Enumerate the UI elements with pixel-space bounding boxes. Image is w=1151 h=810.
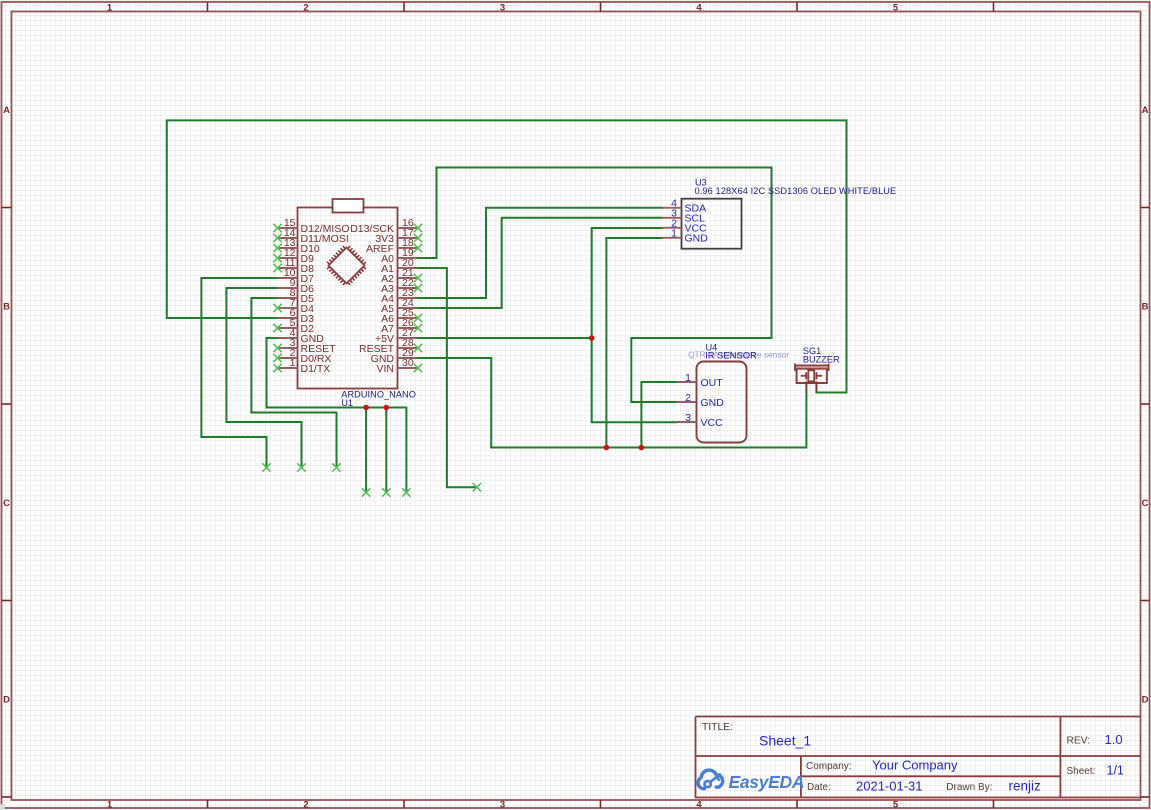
wire net D7: U1 pin 10 (D7) dangling stub — [201, 278, 277, 468]
wire GND drop 1 — [365, 408, 367, 493]
svg-text:4: 4 — [696, 800, 702, 810]
junction rail U4.OUT — [639, 445, 645, 451]
svg-text:OUT: OUT — [701, 377, 724, 389]
no-connect X end of D6 wire — [297, 463, 305, 471]
pin 22 A3 — [398, 287, 418, 289]
pin 21 A2 — [398, 277, 418, 279]
pin 26 A7 — [398, 327, 418, 329]
no-connect X GND drop 1 — [362, 488, 370, 496]
wire net GND: U1 pin 4 (GND) horizontal bus with three drops — [267, 338, 407, 493]
component U4 IR SENSOR — [677, 342, 790, 442]
pin 8 D5 — [278, 297, 298, 299]
svg-text:GND: GND — [685, 233, 709, 245]
svg-text:1: 1 — [685, 372, 691, 384]
pin 28 RESET — [398, 347, 418, 349]
buzzer element — [801, 375, 807, 377]
svg-text:C: C — [3, 498, 10, 509]
svg-text:IR SENSOR: IR SENSOR — [705, 350, 757, 361]
svg-text:Company:: Company: — [806, 761, 852, 772]
svg-text:A: A — [1142, 105, 1149, 116]
pin 2 GND — [677, 401, 697, 403]
pin 1 OUT — [677, 381, 697, 383]
svg-text:Sheet:: Sheet: — [1067, 766, 1096, 777]
svg-text:TITLE:: TITLE: — [702, 722, 733, 733]
buzzer body — [797, 369, 827, 383]
svg-text:D: D — [3, 694, 10, 705]
pin 12 D9 — [278, 257, 298, 259]
svg-text:Sheet_1: Sheet_1 — [759, 733, 811, 749]
buzzer top bar — [795, 365, 829, 369]
wire net D6: U1 pin 9 (D6) dangling stub — [226, 288, 301, 468]
svg-text:A: A — [3, 105, 10, 116]
svg-text:5: 5 — [893, 2, 899, 13]
pin 20 A1 — [398, 267, 418, 269]
pin 30 VIN — [398, 367, 418, 369]
pin 2 D0/RX — [278, 357, 298, 359]
svg-text:2021-01-31: 2021-01-31 — [856, 778, 923, 793]
no-connect X GND drop 3 — [402, 488, 410, 496]
no-connect X end of D7 wire — [262, 463, 270, 471]
wire net D3: U1 pin 6 (D3) to SG1 pin 2, with top loop — [167, 120, 847, 392]
svg-text:D: D — [1142, 694, 1149, 705]
pin 11 D8 — [278, 267, 298, 269]
svg-text:2: 2 — [685, 392, 691, 404]
pin 6 D3 — [278, 317, 298, 319]
pin 4 GND — [278, 337, 298, 339]
pin 23 A4 — [398, 297, 418, 299]
pin 1 D1/TX — [278, 367, 298, 369]
pin 17 3V3 — [398, 237, 418, 239]
svg-text:renjiz: renjiz — [1009, 778, 1042, 793]
svg-text:1: 1 — [671, 227, 677, 239]
pin 4 SDA — [662, 207, 682, 209]
svg-text:3: 3 — [500, 800, 505, 810]
pin 19 A0 — [398, 257, 418, 259]
component SG1 BUZZER — [795, 346, 840, 393]
junction at +5V/VCC — [589, 335, 595, 341]
pin 3 SCL — [662, 217, 682, 219]
svg-text:4: 4 — [696, 2, 702, 13]
svg-text:C: C — [1142, 498, 1149, 509]
pin 13 D10 — [278, 247, 298, 249]
svg-text:1.0: 1.0 — [1105, 732, 1123, 747]
svg-text:2: 2 — [303, 2, 308, 13]
wire net A4/SDA: U1 pin 23 (A4) to U3 pin 4 (SDA) — [418, 208, 662, 298]
svg-text:1: 1 — [107, 2, 113, 13]
wire U3 GND drop: U3 pin 1 (GND) to rail — [606, 238, 661, 448]
svg-text:Date:: Date: — [807, 782, 831, 793]
pin 29 GND — [398, 357, 418, 359]
title block — [696, 717, 1141, 799]
svg-text:1: 1 — [107, 800, 113, 810]
pin 16 D13/SCK — [398, 227, 418, 229]
wire net A1: U1 pin 20 (A1) dangling stub — [418, 268, 477, 487]
svg-text:5: 5 — [893, 800, 899, 810]
wire net VCC: U3 pin 2 (VCC) to U4 pin 3 (VCC) through junction — [592, 228, 677, 422]
pin 15 D12/MISO — [278, 227, 298, 229]
pin 2 right leg — [815, 382, 817, 393]
svg-text:3: 3 — [500, 2, 505, 13]
svg-text:BUZZER: BUZZER — [803, 355, 840, 365]
wire net A5/SCL: U1 pin 24 (A5) to U3 pin 3 (SCL) — [418, 218, 662, 308]
svg-text:2: 2 — [303, 800, 308, 810]
svg-text:D1/TX: D1/TX — [301, 363, 331, 375]
pin 2 VCC — [662, 227, 682, 229]
svg-text:VCC: VCC — [701, 417, 724, 429]
pin 10 D7 — [278, 277, 298, 279]
no-connect X GND drop 2 — [382, 488, 390, 496]
no-connect X end of D5 wire — [332, 463, 340, 471]
pin 24 A5 — [398, 307, 418, 309]
pin 1 GND — [662, 237, 682, 239]
wire net D5: U1 pin 8 (D5) dangling stub — [251, 298, 336, 468]
component U3 OLED display — [662, 178, 897, 249]
svg-text:U1: U1 — [341, 398, 353, 408]
pin 1 left leg — [805, 382, 807, 393]
junction GND bus 1 — [363, 405, 369, 411]
svg-text:1/1: 1/1 — [1107, 763, 1124, 777]
svg-text:Drawn By:: Drawn By: — [946, 782, 992, 793]
svg-text:REV:: REV: — [1067, 736, 1091, 747]
svg-text:B: B — [3, 301, 10, 312]
svg-text:Your Company: Your Company — [872, 758, 958, 773]
junction rail U3.GND — [604, 445, 610, 451]
pin 25 A6 — [398, 317, 418, 319]
wire U4 OUT drop: U4 pin 1 (OUT) to rail — [641, 382, 676, 448]
pin 27 +5V — [398, 337, 418, 339]
wire net A0: U1 pin 19 (A0) to U4 pin 2 (GND) — [418, 168, 772, 403]
svg-text:3: 3 — [685, 412, 691, 424]
svg-text:30: 30 — [402, 357, 414, 369]
svg-text:B: B — [1142, 301, 1149, 312]
pin 18 AREF — [398, 247, 418, 249]
svg-text:GND: GND — [701, 397, 725, 409]
pin 5 D2 — [278, 327, 298, 329]
wire net GND2: U1 pin 29 (GND) rail to SG1 pin 1 — [418, 358, 807, 448]
pin 9 D6 — [278, 287, 298, 289]
junction GND bus 2 — [384, 405, 390, 411]
svg-text:VIN: VIN — [376, 363, 394, 375]
pin 7 D4 — [278, 307, 298, 309]
pin 3 VCC — [677, 421, 697, 423]
wire net +5V: U1 pin 27 (+5V) to VCC junction — [418, 337, 592, 339]
pin 3 RESET — [278, 347, 298, 349]
wire GND drop 2 — [385, 408, 387, 493]
svg-text:EasyEDA: EasyEDA — [729, 772, 805, 792]
svg-text:1: 1 — [290, 357, 296, 369]
svg-text:0.96 128X64 I2C SSD1306 OLED W: 0.96 128X64 I2C SSD1306 OLED WHITE/BLUE — [695, 186, 897, 196]
component U1 ARDUINO_NANO — [273, 199, 422, 408]
no-connect X end of A1 wire — [473, 483, 481, 491]
pin 14 D11/MOSI — [278, 237, 298, 239]
